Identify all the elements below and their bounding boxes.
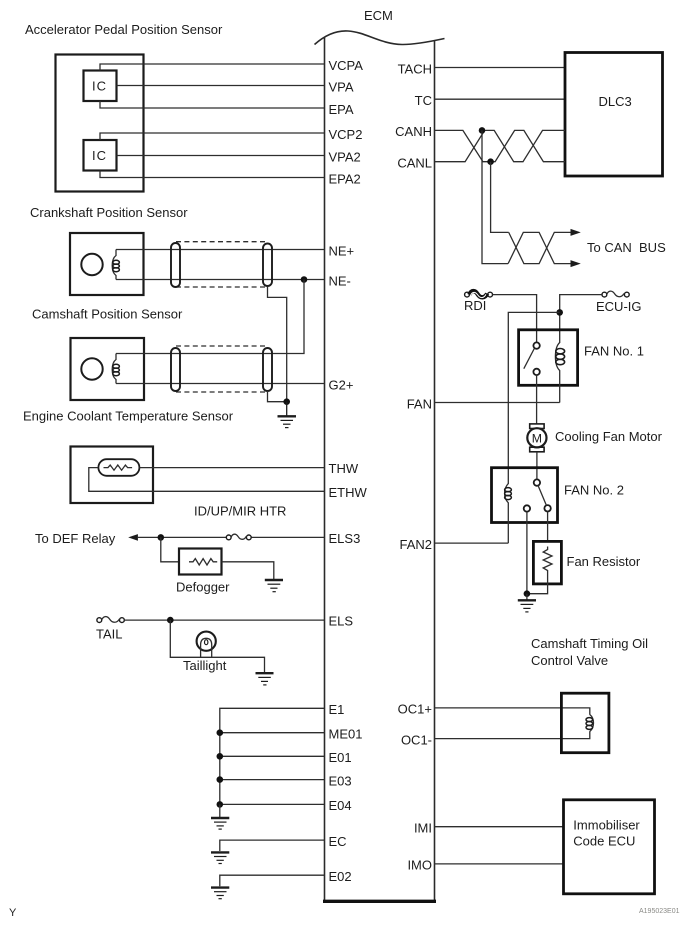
wire THW <box>139 467 324 469</box>
svg-text:CANH: CANH <box>395 124 432 139</box>
wire OC1- <box>435 731 590 738</box>
wire VPA2 <box>117 155 325 157</box>
Cooling Fan Motor label <box>555 429 663 444</box>
svg-text:Crankshaft Position Sensor: Crankshaft Position Sensor <box>30 205 188 220</box>
junction node E01 <box>217 753 224 760</box>
wire ECU-IG to relay coil <box>560 295 602 343</box>
pin E1 <box>329 702 345 717</box>
svg-text:FAN: FAN <box>407 396 432 411</box>
Camshaft Position Sensor label <box>32 307 183 322</box>
crankshaft position sensor body <box>70 233 144 295</box>
relay FAN No.2 K2 <box>492 468 558 543</box>
svg-text:E03: E03 <box>329 773 352 788</box>
fan resistor R1 <box>533 541 561 584</box>
wire ETHW <box>89 468 325 492</box>
junction node E04 <box>217 801 224 808</box>
pin TC <box>415 93 432 108</box>
svg-text:Y: Y <box>9 907 17 919</box>
svg-text:TACH: TACH <box>398 61 432 76</box>
svg-text:THW: THW <box>329 461 359 476</box>
pin VPA2 <box>329 149 361 164</box>
cable S1 connector sleeve right <box>263 244 272 287</box>
Taillight label <box>183 658 227 673</box>
wire E03 <box>220 779 325 781</box>
ground E02 <box>211 888 229 899</box>
wire CANL branch <box>491 162 509 233</box>
svg-text:NE-: NE- <box>329 273 351 288</box>
junction node shield ground <box>283 398 290 405</box>
immobiliser code ECU U5 <box>564 800 655 894</box>
twisted pair CAN BUS lower wire <box>508 232 571 263</box>
svg-text:G2+: G2+ <box>329 377 354 392</box>
svg-text:ECU-IG: ECU-IG <box>596 299 642 314</box>
wire contact to fan resistor <box>547 512 549 542</box>
twisted pair CANH wire <box>435 130 566 161</box>
junction node fan ground <box>524 590 531 597</box>
wire NE- <box>116 279 325 281</box>
ECU-IG label <box>596 299 642 314</box>
wire NE- to camshaft sensor <box>272 280 304 354</box>
cable S1 connector sleeve left <box>171 243 180 287</box>
svg-text:ELS: ELS <box>329 614 354 629</box>
ID/UP/MIR HTR label <box>194 504 286 519</box>
svg-text:TAIL: TAIL <box>96 626 123 641</box>
wire defogger to ground <box>222 562 274 579</box>
svg-text:VCPA: VCPA <box>329 58 364 73</box>
svg-text:EPA2: EPA2 <box>329 171 361 186</box>
svg-text:E04: E04 <box>329 798 352 813</box>
wire ME01 <box>220 732 325 734</box>
svg-text:Immobiliser: Immobiliser <box>573 818 640 833</box>
pin OC1- <box>401 732 432 747</box>
ground defogger <box>265 580 283 592</box>
RDI label <box>464 298 486 313</box>
svg-text:VCP2: VCP2 <box>329 127 363 142</box>
svg-text:IMO: IMO <box>407 858 432 873</box>
pin EPA <box>329 102 354 117</box>
wire VCPA <box>100 64 325 71</box>
ground taillight <box>256 673 274 685</box>
pin E04 <box>329 798 352 813</box>
thermistor RT1 <box>98 459 139 476</box>
pin ME01 <box>329 727 363 742</box>
wire G2+ <box>116 383 325 385</box>
pin FAN <box>407 396 432 411</box>
wire VPA <box>117 85 325 87</box>
pin THW <box>329 461 359 476</box>
wire motor to FAN No.2 contact <box>536 452 538 480</box>
svg-text:CANL: CANL <box>397 156 432 171</box>
wire TACH <box>435 67 565 69</box>
svg-text:FAN2: FAN2 <box>399 537 432 552</box>
wire relay feed to FAN No.2 coil <box>508 312 559 484</box>
svg-text:FAN No. 2: FAN No. 2 <box>564 483 624 498</box>
To DEF Relay label <box>35 531 116 546</box>
wire FAN <box>435 402 560 404</box>
pin E01 <box>329 750 352 765</box>
pin E03 <box>329 773 352 788</box>
pin VPA <box>329 79 354 94</box>
ground fan <box>518 594 536 612</box>
svg-text:E01: E01 <box>329 750 352 765</box>
wire E04 <box>220 803 325 805</box>
Engine Coolant Temperature Sensor label <box>23 409 234 424</box>
svg-text:Engine Coolant Temperature Sen: Engine Coolant Temperature Sensor <box>23 409 234 424</box>
svg-text:NE+: NE+ <box>329 243 355 258</box>
wire E-bus to ground <box>219 804 221 817</box>
wire E1 <box>220 708 325 804</box>
pin TACH <box>398 61 432 76</box>
junction node E03 <box>217 776 224 783</box>
crankshaft pickup coil L1 <box>112 250 119 280</box>
pin NE- <box>329 273 351 288</box>
wire ELS3 <box>137 536 325 538</box>
pin CANH <box>395 124 432 139</box>
svg-text:VPA2: VPA2 <box>329 149 361 164</box>
arrow CAN BUS lower <box>571 260 581 267</box>
svg-text:To CAN BUS: To CAN BUS <box>587 240 666 255</box>
wire NE+ <box>116 249 325 251</box>
svg-text:ETHW: ETHW <box>329 485 368 500</box>
pin ELS3 <box>329 531 361 546</box>
wire contact to ground <box>526 512 528 594</box>
pin NE+ <box>329 243 355 258</box>
wire OC1+ <box>435 708 590 715</box>
Accelerator Pedal Position Sensor label <box>25 22 223 37</box>
wire EPA2 <box>100 171 325 178</box>
wire shield drain S1 <box>268 287 287 402</box>
wire IMI <box>435 826 564 828</box>
svg-text:Defogger: Defogger <box>176 579 230 594</box>
wire RDI to relay contact <box>493 295 537 343</box>
junction node on NE- <box>301 276 308 283</box>
wire relay contact to motor <box>536 375 538 424</box>
svg-text:ID/UP/MIR HTR: ID/UP/MIR HTR <box>194 504 286 519</box>
svg-text:Camshaft Position Sensor: Camshaft Position Sensor <box>32 307 183 322</box>
wire taillight branch <box>170 620 264 673</box>
page marker Y <box>9 907 17 919</box>
taillight lamp DS1 <box>197 632 216 658</box>
svg-text:IC: IC <box>92 79 107 94</box>
svg-text:VPA: VPA <box>329 79 354 94</box>
wire E01 <box>220 755 325 757</box>
svg-text:IMI: IMI <box>414 821 432 836</box>
pin E02 <box>329 869 352 884</box>
cable S2 connector sleeve right <box>263 348 272 391</box>
svg-text:E1: E1 <box>329 702 345 717</box>
svg-text:Fan Resistor: Fan Resistor <box>567 554 641 569</box>
svg-text:OC1-: OC1- <box>401 732 432 747</box>
wire fan resistor to ground <box>527 574 548 594</box>
FAN No. 1 label <box>584 344 644 359</box>
pin OC1+ <box>398 702 432 717</box>
svg-text:FAN No. 1: FAN No. 1 <box>584 344 644 359</box>
wire FAN2 <box>435 542 509 544</box>
ground EC <box>211 852 229 863</box>
wire ELS <box>124 619 324 621</box>
fusible link RDI <box>465 291 493 298</box>
pin G2+ <box>329 377 354 392</box>
Fan Resistor label <box>567 554 641 569</box>
shielded cable S2 dashed shield <box>176 346 267 392</box>
fuse TAIL <box>97 617 124 623</box>
wire TC <box>435 98 565 100</box>
junction node CANL tap <box>487 158 494 165</box>
svg-text:Accelerator Pedal Position Sen: Accelerator Pedal Position Sensor <box>25 22 223 37</box>
Camshaft Timing Oil Control Valve label <box>531 636 648 668</box>
cable S2 connector sleeve left <box>171 348 180 391</box>
engine coolant temperature sensor body <box>71 447 154 504</box>
svg-text:E02: E02 <box>329 869 352 884</box>
camshaft pickup coil L2 <box>112 354 119 384</box>
svg-text:RDI: RDI <box>464 298 486 313</box>
wire camshaft signal top <box>116 353 272 355</box>
pin ETHW <box>329 485 368 500</box>
camshaft timing oil control valve L3 <box>561 693 609 753</box>
wire EC <box>220 840 325 851</box>
ECM U1 <box>315 8 445 901</box>
pin IMO <box>407 858 432 873</box>
IC U3 <box>84 140 117 171</box>
svg-text:ME01: ME01 <box>329 727 363 742</box>
svg-text:OC1+: OC1+ <box>398 702 432 717</box>
svg-text:Code ECU: Code ECU <box>573 834 635 849</box>
accelerator pedal position sensor body <box>56 55 144 192</box>
ground shield <box>278 402 297 428</box>
svg-text:Cooling Fan Motor: Cooling Fan Motor <box>555 429 663 444</box>
twisted pair CANL wire <box>435 130 566 161</box>
To CAN BUS label <box>587 240 666 255</box>
pin EC <box>329 834 347 849</box>
svg-text:ELS3: ELS3 <box>329 531 361 546</box>
pin EPA2 <box>329 171 361 186</box>
cooling fan motor M1 <box>527 424 546 452</box>
fuse ECU-IG <box>602 291 629 297</box>
pin ELS <box>329 614 354 629</box>
wire EPA <box>100 101 325 108</box>
twisted pair CAN BUS upper wire <box>509 232 572 263</box>
svg-text:A195023E01: A195023E01 <box>639 908 680 915</box>
svg-text:EPA: EPA <box>329 102 354 117</box>
junction node CANH tap <box>479 127 486 134</box>
wire E02 <box>220 875 325 886</box>
pin CANL <box>397 156 432 171</box>
svg-text:TC: TC <box>415 93 432 108</box>
camshaft position sensor body <box>71 338 145 400</box>
Crankshaft Position Sensor label <box>30 205 188 220</box>
defogger R2 <box>179 549 222 575</box>
svg-text:To DEF Relay: To DEF Relay <box>35 531 116 546</box>
TAIL label <box>96 626 123 641</box>
wire VCP2 <box>100 133 325 140</box>
pin VCP2 <box>329 127 363 142</box>
pin VCPA <box>329 58 364 73</box>
drawing number A195023E01 <box>639 908 680 915</box>
arrow CAN BUS upper <box>571 229 581 236</box>
DLC3 U4 <box>565 53 663 177</box>
arrow to DEF relay <box>128 534 138 541</box>
junction node taillight tap <box>167 617 174 624</box>
shielded cable S1 dashed shield <box>176 242 267 287</box>
junction node ME01 <box>217 729 224 736</box>
pin IMI <box>414 821 432 836</box>
pin FAN2 <box>399 537 432 552</box>
svg-text:Control Valve: Control Valve <box>531 653 608 668</box>
svg-text:M: M <box>532 431 542 445</box>
svg-text:Taillight: Taillight <box>183 658 227 673</box>
junction node relay coil feed <box>556 309 563 316</box>
Defogger label <box>176 579 230 594</box>
IC U2 <box>84 71 117 102</box>
relay FAN No.1 K1 <box>519 330 578 403</box>
svg-text:IC: IC <box>92 148 107 163</box>
junction node defogger tap <box>158 534 165 541</box>
ground E-bus <box>211 818 229 829</box>
svg-text:DLC3: DLC3 <box>599 94 632 109</box>
svg-text:EC: EC <box>329 834 347 849</box>
FAN No. 2 label <box>564 483 624 498</box>
fuse ELS3 <box>226 534 251 540</box>
svg-text:Camshaft Timing Oil: Camshaft Timing Oil <box>531 636 648 651</box>
svg-text:ECM: ECM <box>364 8 393 23</box>
wire IMO <box>435 863 564 865</box>
wire CANH branch <box>482 130 508 263</box>
wire shield drain S2 <box>268 391 287 402</box>
wire defogger branch <box>161 537 179 561</box>
